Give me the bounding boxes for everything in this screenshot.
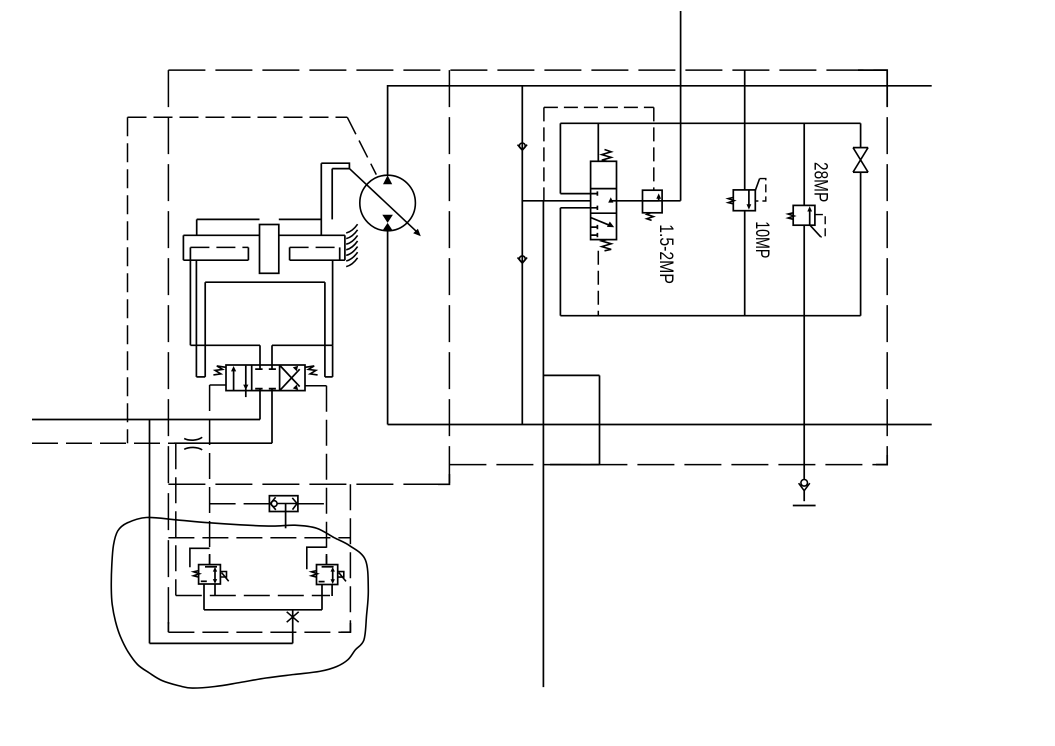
- wire relief common drain: [204, 609, 322, 611]
- wire cylinder port lines to DCV: [260, 345, 272, 365]
- wire DCV right dashed pilot stub: [305, 386, 327, 565]
- wire drop to lower manifold (dashed): [175, 443, 177, 595]
- wire DCV left dashed pilot stub: [210, 385, 226, 565]
- node ram plunger: [260, 225, 279, 274]
- svg-text:1.5-2MP: 1.5-2MP: [656, 224, 678, 284]
- check valve CV1: [518, 143, 528, 150]
- node lower dashed box inner: [176, 595, 330, 597]
- relief valve U7 (right): [311, 565, 346, 585]
- node system boundary (outer dashed enclosure): [168, 70, 887, 632]
- node machine left leg: [196, 345, 205, 377]
- ground tank drain symbol: [793, 480, 816, 506]
- node wall hatching: [346, 224, 357, 266]
- node machine right leg: [325, 345, 333, 377]
- relief valve U4 10MP: [728, 179, 766, 211]
- wire U6 remote loop: [190, 548, 210, 567]
- wire valve U2 bottom drain (dashed): [597, 251, 599, 316]
- wire bottom drain run: [150, 642, 293, 644]
- wire bridge line with check valve: [210, 503, 327, 505]
- spring of U2 (top): [602, 150, 611, 162]
- wire main pressure line to valve block: [522, 200, 590, 202]
- wire pilot control line to pump (dashed diagonal): [347, 117, 376, 174]
- wire pump suction line T: [387, 231, 389, 425]
- wire drain riser left: [149, 420, 151, 644]
- svg-text:10MP: 10MP: [751, 221, 773, 258]
- wire reduced pressure line: [617, 200, 681, 202]
- wire long drop line: [542, 201, 544, 687]
- spring of U1 (right): [305, 366, 318, 375]
- wire port A line: [32, 391, 260, 420]
- node machine subsystem boundary (dashed): [128, 117, 348, 443]
- check valve CV2: [518, 256, 528, 263]
- valve U3 pressure reducing valve 1.5-2MP: [643, 190, 663, 213]
- node crossbar slot left (dashed top): [190, 247, 248, 260]
- wire 28MP riser: [803, 123, 805, 479]
- valve U2 sequence/unloading valve body: [591, 161, 617, 239]
- wire solenoid supply drop: [680, 11, 682, 201]
- spring of U1 (left): [213, 366, 226, 375]
- pump P1 variable displacement: [349, 169, 420, 237]
- wire drain riser to shutoff: [292, 610, 294, 644]
- node step outline lower left of block: [543, 375, 599, 464]
- svg-text:28MP: 28MP: [810, 162, 832, 202]
- node machine body frame: [190, 260, 332, 345]
- valve V2 closed shutoff (X): [287, 612, 299, 622]
- wire port B line: [32, 391, 272, 444]
- wire U6 outlet: [204, 584, 215, 610]
- node crossbar slot right (dashed top): [290, 247, 340, 260]
- shutoff valve V1 (bowtie): [853, 148, 868, 173]
- node lower dashed box outer: [168, 484, 350, 632]
- spring of U3 (below): [647, 213, 654, 221]
- throttle restrictor on port B line: [184, 437, 202, 450]
- node revision cloud: [111, 517, 368, 688]
- wire U7 remote loop: [307, 547, 327, 569]
- wire check valve riser: [521, 86, 523, 425]
- wire pilot branch (dashed): [544, 107, 654, 200]
- wire 10MP riser: [744, 70, 746, 316]
- relief valve U5 28MP: [788, 205, 825, 237]
- check valve CV3 (boxed): [269, 496, 298, 529]
- valve U1 directional control 4/3: [226, 365, 305, 397]
- wire pump outlet line P: [388, 86, 932, 176]
- wire U7 outlet: [322, 585, 332, 610]
- node machine upper plate: [197, 219, 322, 235]
- wire tank return header: [388, 424, 932, 426]
- relief valve U6 (left): [194, 565, 229, 584]
- node machine crossbar slide: [183, 235, 345, 260]
- node machine bracket arm: [321, 163, 349, 235]
- wire valve U2 top pilot line: [597, 123, 599, 161]
- spring of U2 (bottom): [602, 240, 611, 251]
- node valve block inner frame: [560, 123, 860, 315]
